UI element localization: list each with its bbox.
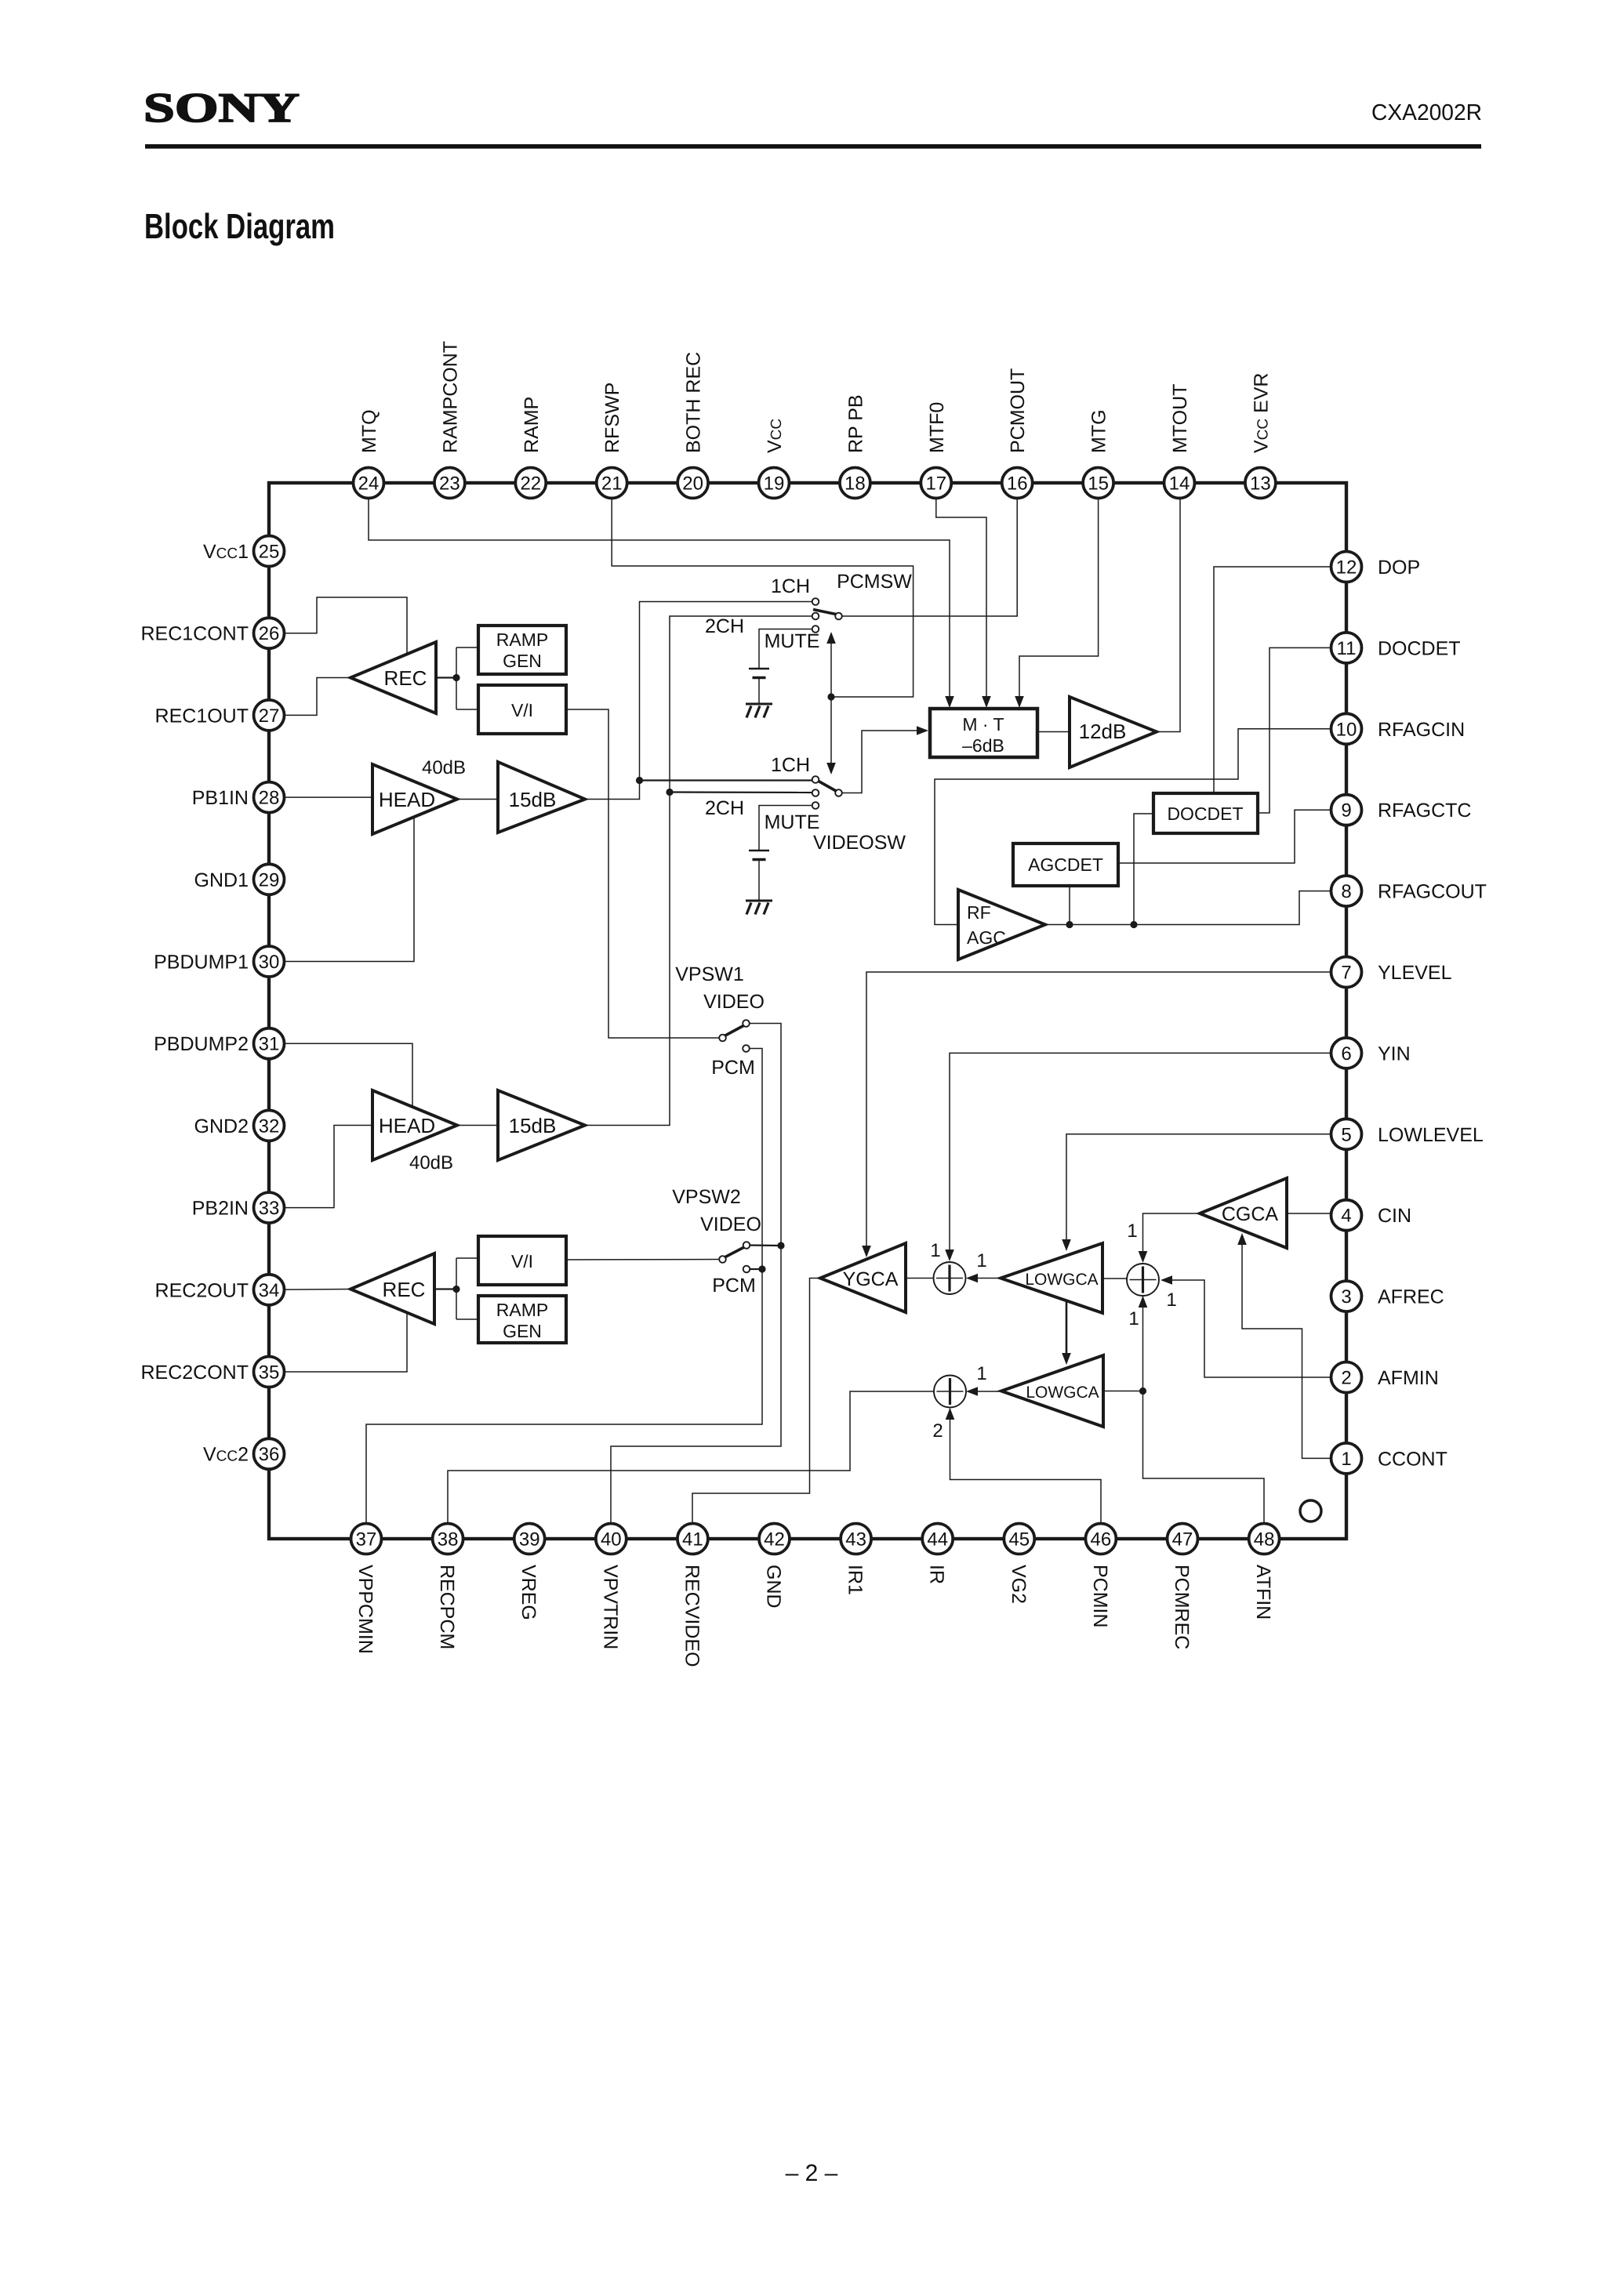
pin 7 YLEVEL [1331,957,1452,988]
svg-text:REC: REC [384,666,427,690]
pin 34 REC2OUT [155,1275,285,1305]
junction VPSW2 PCM tap [758,1265,765,1272]
wire V/I ch2 to VPSW2 pole [566,1259,719,1261]
wire pin 5 LOWLEVEL to LOWGCA control [1066,1134,1331,1241]
svg-text:VG2: VG2 [1008,1565,1030,1604]
svg-text:REC2CONT: REC2CONT [140,1362,249,1384]
svg-text:IR1: IR1 [845,1565,866,1595]
svg-text:RF: RF [967,902,991,923]
wire pin 35 REC2CONT to REC amp control [269,1312,407,1372]
pin 35 REC2CONT [140,1357,284,1387]
svg-text:IR: IR [926,1565,948,1584]
pin 24 MTQ [354,409,384,498]
svg-text:MTOUT: MTOUT [1169,384,1191,453]
wire VIDEOSW MUTE to capacitor [759,806,812,851]
pin 17 MTF0 [921,402,951,499]
svg-text:12: 12 [1336,557,1357,579]
svg-text:PBDUMP1: PBDUMP1 [154,952,249,974]
block AGCDET [1013,843,1118,886]
op-amp REC (ch1) [351,642,436,713]
wire summing node 1 to YGCA [906,1278,933,1279]
svg-text:RECVIDEO: RECVIDEO [681,1565,703,1667]
svg-text:GND2: GND2 [194,1115,249,1137]
wire ch1 to VIDEOSW 1CH [640,779,813,781]
svg-text:AFREC: AFREC [1378,1286,1444,1308]
wire pin 34 REC2OUT to REC amp output [269,1289,351,1291]
svg-text:RAMP: RAMP [521,397,543,453]
pin 20 BOTH REC [677,352,708,499]
svg-text:LOWLEVEL: LOWLEVEL [1378,1124,1484,1146]
svg-text:28: 28 [259,788,280,809]
svg-text:PCM: PCM [711,1057,755,1079]
svg-text:3: 3 [1341,1286,1351,1308]
switch VPSW2 [719,1256,726,1263]
svg-text:1CH: 1CH [771,754,810,776]
svg-text:RFAGCIN: RFAGCIN [1378,719,1465,741]
svg-text:VPSW2: VPSW2 [672,1186,741,1208]
svg-text:GND: GND [763,1565,785,1609]
svg-text:23: 23 [439,473,460,495]
svg-text:RAMPCONT: RAMPCONT [439,341,461,453]
svg-text:DOCDET: DOCDET [1167,803,1243,824]
svg-text:MTG: MTG [1088,409,1110,453]
svg-text:RFAGCOUT: RFAGCOUT [1378,881,1487,903]
wire pin 1 CCONT to CGCA control [1242,1243,1331,1458]
header rule [145,144,1481,149]
op-amp LOWGCA (2) [1001,1355,1103,1427]
pin 4 CIN [1331,1200,1412,1231]
pin 1 indicator circle [1300,1500,1321,1522]
svg-text:YLEVEL: YLEVEL [1378,962,1452,984]
op-amp 15dB (ch2) [498,1090,585,1160]
svg-text:36: 36 [259,1444,280,1465]
pin 33 PB2IN [192,1192,285,1223]
op-amp CGCA [1200,1178,1287,1248]
wire pin 10 RFAGCIN to RF AGC input [935,729,1331,925]
svg-text:19: 19 [764,473,785,495]
svg-text:40dB: 40dB [409,1152,453,1173]
svg-text:2: 2 [1341,1368,1351,1389]
switch VIDEOSW [812,776,819,783]
svg-text:2CH: 2CH [705,615,744,637]
pin 21 RFSWP [597,383,627,499]
wire REC1 to V/I and RAMP GEN [436,676,456,678]
wire CGCA output to summing node 3 [1143,1213,1200,1253]
wire VPSW2 PCM contact stub [750,1268,762,1270]
pin 37 VPPCMIN [351,1524,382,1654]
svg-text:18: 18 [845,473,866,495]
wire LOWGCA2 to summing node 2 [968,1391,1001,1392]
svg-text:MUTE: MUTE [765,630,820,652]
wire 15dB ch2 output riser [585,616,812,1126]
svg-text:SONY: SONY [143,85,300,131]
svg-text:CIN: CIN [1378,1205,1411,1227]
wire VPSW2 VIDEO contact stub [750,1244,781,1246]
switch VPSW1 [719,1035,726,1042]
pin 48 ATFIN [1249,1524,1280,1620]
svg-text:VIDEO: VIDEO [700,1213,761,1235]
junction REC1 output node [452,674,459,681]
svg-text:HEAD: HEAD [379,788,435,811]
wire pin 16 PCMOUT to PCMSW pole [842,499,1017,616]
svg-text:15dB: 15dB [509,788,557,811]
svg-text:1: 1 [976,1363,986,1384]
svg-text:24: 24 [358,473,380,495]
pin 36 Vcc2 [203,1438,285,1469]
wire DOCDET to RF AGC output node [1134,814,1153,925]
pin 9 RFAGCTC [1331,795,1472,825]
svg-text:–6dB: –6dB [962,735,1004,756]
wire pin 24 MTQ to M.T block [369,499,950,698]
op-amp 15dB (ch1) [498,762,585,832]
pin 29 GND1 [194,864,285,894]
wire pin 11 DOCDET to DOCDET block [1258,647,1331,813]
svg-text:RP PB: RP PB [845,394,866,453]
summing node 2 [934,1376,966,1408]
op-amp HEAD (ch2) [372,1090,457,1160]
pin 1 CCONT [1331,1443,1447,1474]
svg-text:32: 32 [259,1115,280,1137]
svg-text:AGC: AGC [967,927,1006,948]
svg-text:48: 48 [1254,1529,1275,1551]
svg-text:CGCA: CGCA [1222,1203,1279,1225]
pin 38 RECPCM [433,1524,463,1650]
svg-text:VPVTRIN: VPVTRIN [599,1565,621,1649]
pin 18 RP PB [840,394,870,498]
svg-text:17: 17 [925,473,946,495]
wire pin 4 CIN to CGCA [1287,1213,1331,1214]
pin 45 VG2 [1004,1524,1034,1605]
svg-text:1: 1 [1128,1308,1139,1329]
pin 30 PBDUMP1 [154,946,284,977]
svg-text:34: 34 [259,1280,280,1301]
summing node 3 [1127,1264,1159,1296]
wire pin 30 PBDUMP1 to HEAD amp [269,818,414,962]
svg-text:35: 35 [259,1362,280,1384]
svg-text:LOWGCA: LOWGCA [1025,1271,1098,1289]
svg-text:29: 29 [259,869,280,890]
wire ATFIN node to LOWGCA2 input [1103,1391,1143,1392]
svg-text:15dB: 15dB [509,1114,557,1137]
wire REC2 to V/I and RAMP GEN [434,1288,456,1289]
svg-text:VPPCMIN: VPPCMIN [354,1565,376,1654]
wire HEAD1 to 15dB amp [457,799,498,800]
pin 15 MTG [1083,409,1113,498]
pin 46 PCMIN [1085,1524,1116,1628]
block RAMP GEN (ch2) [478,1296,566,1343]
wire pin 28 PB1IN to HEAD amp [269,796,372,798]
svg-text:PCM: PCM [712,1275,756,1297]
op-amp YGCA [820,1243,906,1312]
wire VIDEOSW pole to M.T input [842,731,917,793]
svg-text:GEN: GEN [503,1321,542,1341]
svg-text:ATFIN: ATFIN [1252,1565,1274,1620]
svg-text:YGCA: YGCA [843,1268,899,1290]
svg-text:1: 1 [930,1240,940,1261]
svg-text:22: 22 [520,473,541,495]
pin 22 RAMP [515,397,546,499]
op-amp 12dB [1070,697,1157,767]
svg-text:30: 30 [259,952,280,973]
op-amp HEAD (ch1) [372,764,457,834]
svg-text:RAMP: RAMP [496,629,548,650]
svg-text:1: 1 [1166,1289,1176,1311]
svg-text:GND1: GND1 [194,869,249,891]
svg-text:RECPCM: RECPCM [436,1565,458,1649]
pin 27 REC1OUT [155,700,285,731]
svg-text:VCC EVR: VCC EVR [1250,373,1272,454]
svg-text:31: 31 [259,1034,280,1055]
svg-text:M · T: M · T [962,714,1004,735]
svg-text:8: 8 [1341,881,1351,902]
svg-text:Block Diagram: Block Diagram [144,206,335,246]
svg-text:1CH: 1CH [771,575,810,597]
svg-text:LOWGCA: LOWGCA [1026,1384,1099,1402]
op-amp LOWGCA (1) [1001,1243,1102,1313]
summing node 1 [934,1262,966,1294]
svg-text:AFMIN: AFMIN [1378,1367,1439,1389]
wire LOWGCA1 cascade to LOWGCA2 control [1066,1298,1068,1355]
svg-text:REC1CONT: REC1CONT [140,623,249,645]
svg-text:7: 7 [1341,963,1351,984]
wire pin 2 AFMIN to summing node 3 [1162,1280,1331,1377]
pin 12 DOP [1331,552,1421,582]
svg-text:25: 25 [259,542,280,563]
wire pin 31 PBDUMP2 to HEAD amp [269,1043,412,1107]
svg-text:REC: REC [383,1278,426,1301]
block M.T -6dB [930,709,1037,757]
svg-text:REC2OUT: REC2OUT [155,1279,249,1301]
block V/I (ch2) [478,1236,566,1285]
junction switch control [827,693,834,700]
wire 15dB ch1 output riser [585,602,812,800]
wire RF AGC output to pin 8 RFAGCOUT [1045,891,1331,925]
svg-text:38: 38 [438,1529,459,1551]
svg-text:REC1OUT: REC1OUT [155,705,249,727]
junction VPSW2 VIDEO tap [777,1242,784,1249]
pin 43 IR1 [841,1524,871,1595]
svg-text:RFSWP: RFSWP [601,383,623,453]
pin 11 DOCDET [1331,633,1461,663]
pin 2 AFMIN [1331,1362,1439,1393]
svg-text:40dB: 40dB [422,757,466,778]
wire pin 6 YIN to summing node [950,1053,1331,1251]
junction AGCDET tap [1066,921,1073,928]
svg-text:2: 2 [932,1420,943,1442]
junction ATFIN to LOWGCA2 [1139,1387,1146,1395]
svg-text:HEAD: HEAD [379,1114,435,1137]
pin 19 Vcc [759,419,790,499]
pin 42 GND [759,1524,790,1609]
svg-text:1: 1 [1127,1221,1137,1242]
pin 25 Vcc1 [203,536,285,567]
svg-text:40: 40 [601,1529,622,1551]
wire pin 33 PB2IN to HEAD amp [269,1126,372,1208]
svg-text:20: 20 [682,473,703,495]
svg-text:VPSW1: VPSW1 [675,963,744,985]
block RAMP GEN (ch1) [478,626,566,674]
wire pin 48 ATFIN riser [1143,1297,1265,1523]
wire pin 7 YLEVEL to YGCA control [866,972,1331,1247]
svg-text:DOP: DOP [1378,557,1420,579]
svg-text:11: 11 [1337,638,1357,659]
svg-text:15: 15 [1088,473,1109,495]
svg-text:4: 4 [1341,1206,1351,1227]
svg-text:VREG: VREG [518,1565,539,1620]
ground (PCMSW mute) [758,677,760,704]
svg-text:9: 9 [1341,800,1351,822]
capacitor MUTE (VIDEOSW) [749,850,769,851]
wire summing node 2 output to pin 38 RECPCM [448,1391,934,1523]
pin 16 PCMOUT [1002,368,1033,499]
junction REC2 output node [452,1286,459,1293]
pin 8 RFAGCOUT [1331,876,1487,906]
pin 31 PBDUMP2 [154,1028,284,1059]
wire summing node 3 to LOWGCA1 [1102,1278,1127,1279]
svg-text:RFAGCTC: RFAGCTC [1378,800,1471,822]
svg-text:PB2IN: PB2IN [192,1198,249,1220]
svg-text:MUTE: MUTE [765,811,820,833]
wire pin 26 REC1CONT to REC amp control [269,597,407,655]
pin 26 REC1CONT [140,618,284,648]
svg-text:42: 42 [764,1529,785,1551]
svg-text:14: 14 [1169,473,1190,495]
svg-text:10: 10 [1336,719,1357,740]
svg-text:27: 27 [259,705,280,727]
wire pin 12 DOP to DOCDET [1214,567,1331,793]
pin 28 PB1IN [192,782,285,813]
wire pin 46 PCMIN to summing node 2 [950,1409,1102,1523]
svg-text:PCMOUT: PCMOUT [1007,368,1029,453]
junction DOCDET tap [1130,921,1137,928]
svg-text:46: 46 [1091,1529,1112,1551]
svg-text:39: 39 [519,1529,540,1551]
svg-text:13: 13 [1250,473,1271,495]
pin 41 RECVIDEO [677,1524,708,1667]
svg-text:V/I: V/I [511,1251,533,1271]
wire PCMSW MUTE to capacitor [759,629,812,669]
switch PCMSW [812,598,819,605]
svg-text:PB1IN: PB1IN [192,787,249,809]
pin 10 RFAGCIN [1331,713,1466,744]
svg-text:41: 41 [682,1529,703,1551]
svg-text:6: 6 [1341,1043,1351,1065]
svg-text:47: 47 [1172,1529,1193,1551]
svg-text:PCMIN: PCMIN [1089,1565,1111,1628]
svg-text:26: 26 [259,623,280,644]
pin 47 PCMREC [1168,1524,1198,1650]
svg-text:VIDEOSW: VIDEOSW [813,832,906,854]
svg-text:12dB: 12dB [1079,720,1127,743]
pin 39 VREG [514,1524,545,1620]
pin 23 RAMPCONT [434,341,465,499]
svg-text:CCONT: CCONT [1378,1448,1447,1470]
svg-text:5: 5 [1341,1124,1351,1145]
svg-text:1: 1 [1341,1449,1351,1470]
pin 44 IR [922,1524,953,1585]
wire LOWGCA1 to summing node 1 [968,1278,1001,1279]
svg-text:45: 45 [1008,1529,1030,1551]
svg-text:AGCDET: AGCDET [1028,854,1103,875]
svg-text:GEN: GEN [503,651,542,671]
wire ch2 to VIDEOSW 2CH [670,791,812,793]
svg-text:MTF0: MTF0 [926,402,948,453]
svg-text:CXA2002R: CXA2002R [1371,100,1482,125]
svg-text:43: 43 [845,1529,866,1551]
wire VPSW1 VIDEO contact line [611,1024,781,1524]
pin 5 LOWLEVEL [1331,1119,1484,1149]
pin 13 Vcc EVR [1245,373,1276,499]
wire HEAD2 to 15dB amp [457,1125,498,1126]
capacitor MUTE (PCMSW) [749,668,769,669]
svg-text:BOTH REC: BOTH REC [683,352,705,453]
svg-text:44: 44 [927,1529,948,1551]
pin 6 YIN [1331,1038,1411,1068]
junction ch1 video tap [636,777,643,784]
op-amp REC (ch2) [351,1253,434,1324]
ground (VIDEOSW mute) [758,859,760,901]
wire V/I ch1 to VPSW1 pole [566,709,719,1038]
pin 40 VPVTRIN [596,1524,627,1650]
svg-text:16: 16 [1007,473,1028,495]
pin 14 MTOUT [1164,384,1195,499]
svg-text:YIN: YIN [1378,1043,1411,1065]
wire AGCDET to RF AGC output node [1069,886,1070,925]
wire pin 21 RFSWP to switch control [612,499,913,697]
wire M.T to 12dB amp [1037,731,1070,733]
switch control arrow to PCMSW [830,640,832,697]
IC package outline [269,483,1346,1539]
wire 12dB output to pin 14 MTOUT [1157,499,1180,732]
block DOCDET [1153,793,1258,833]
svg-text:PBDUMP2: PBDUMP2 [154,1033,249,1055]
wire VPSW1 PCM contact line [366,1049,762,1524]
pin 3 AFREC [1331,1281,1444,1311]
svg-text:37: 37 [356,1529,377,1551]
svg-text:DOCDET: DOCDET [1378,637,1461,659]
svg-text:2CH: 2CH [705,797,744,819]
switch control arrow to VIDEOSW [830,697,832,766]
svg-text:PCMREC: PCMREC [1171,1565,1193,1649]
wire pin 15 MTG to M.T block [1019,499,1099,698]
block V/I (ch1) [478,685,566,734]
wire YGCA output to pin 41 RECVIDEO [692,1279,820,1524]
svg-text:RAMP: RAMP [496,1300,548,1320]
wire pin 27 REC1OUT to REC amp output [269,678,351,716]
svg-text:MTQ: MTQ [358,409,380,453]
svg-text:– 2 –: – 2 – [786,2160,838,2186]
junction ch2 video tap [666,789,673,796]
wire AGCDET to pin 9 RFAGCTC [1118,810,1331,863]
svg-text:VIDEO: VIDEO [703,991,765,1013]
svg-text:V/I: V/I [511,700,533,720]
svg-text:21: 21 [601,473,623,495]
pin 32 GND2 [194,1110,285,1141]
svg-text:1: 1 [976,1250,986,1271]
svg-text:PCMSW: PCMSW [837,571,912,593]
svg-text:33: 33 [259,1198,280,1219]
wire pin 17 MTF0 to M.T block [936,499,986,698]
op-amp RF AGC [958,890,1045,959]
